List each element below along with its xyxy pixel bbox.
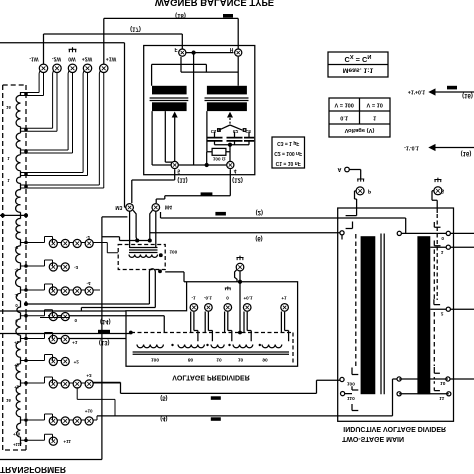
svg-text:(14): (14) — [100, 318, 111, 324]
svg-text:16: 16 — [6, 105, 11, 110]
svg-text:(2): (2) — [256, 209, 263, 215]
svg-text:(13): (13) — [99, 339, 110, 345]
svg-text:-2W: -2W — [52, 56, 61, 62]
svg-text:C3: C3 — [245, 129, 251, 134]
svg-text:110: 110 — [347, 395, 355, 401]
svg-text:+11: +11 — [63, 439, 71, 444]
svg-text:(11): (11) — [177, 176, 187, 182]
svg-text:0W: 0W — [68, 56, 76, 62]
svg-text:(17): (17) — [130, 25, 141, 31]
svg-text:+2: +2 — [74, 360, 80, 365]
svg-text:+1'+0.1: +1'+0.1 — [408, 89, 426, 95]
svg-text:Meas. 1:1: Meas. 1:1 — [343, 67, 374, 74]
svg-text:(6): (6) — [255, 235, 262, 241]
svg-text:100: 100 — [151, 356, 159, 362]
svg-text:5: 5 — [177, 167, 180, 173]
svg-text:TWO-STAGE MAIN: TWO-STAGE MAIN — [342, 435, 404, 442]
svg-text:(12): (12) — [232, 176, 243, 182]
svg-text:+1: +1 — [281, 296, 287, 301]
svg-text:(16): (16) — [461, 150, 472, 156]
svg-text:4: 4 — [234, 168, 237, 174]
svg-text:10: 10 — [216, 356, 222, 362]
svg-text:-0.1: -0.1 — [204, 296, 212, 301]
svg-text:C1 = 10 nF: C1 = 10 nF — [276, 160, 301, 166]
svg-text:100: 100 — [347, 381, 355, 387]
svg-text:-1W: -1W — [29, 56, 38, 62]
svg-text:V = 10: V = 10 — [367, 101, 383, 107]
svg-text:90: 90 — [262, 356, 268, 362]
svg-text:C2: C2 — [233, 129, 239, 134]
svg-text:-2: -2 — [86, 235, 91, 240]
svg-text:10: 10 — [440, 380, 446, 386]
svg-text:-4: -4 — [86, 281, 91, 286]
svg-text:+3: +3 — [86, 373, 92, 378]
svg-text:+2: +2 — [14, 384, 19, 389]
svg-text:C2 = 100 nF: C2 = 100 nF — [274, 150, 302, 156]
svg-text:(16): (16) — [462, 92, 473, 98]
svg-text:M3: M3 — [115, 204, 122, 210]
svg-text:(4): (4) — [160, 415, 167, 421]
svg-text:11: 11 — [439, 395, 444, 401]
svg-text:0: 0 — [226, 296, 229, 301]
svg-text:1: 1 — [441, 249, 444, 255]
svg-text:100: 100 — [169, 249, 177, 254]
svg-text:0: 0 — [75, 318, 78, 323]
svg-text:VOLTAGE PREDIVIDER: VOLTAGE PREDIVIDER — [172, 374, 250, 381]
svg-text:+2W: +2W — [82, 56, 93, 62]
svg-text:-4: -4 — [15, 292, 19, 297]
svg-text:100 Ω: 100 Ω — [213, 157, 226, 162]
svg-text:M4: M4 — [165, 204, 172, 210]
svg-text:+10: +10 — [85, 408, 93, 413]
svg-text:0.1: 0.1 — [340, 114, 348, 120]
svg-text:0: 0 — [441, 235, 444, 241]
svg-text:1: 1 — [373, 114, 376, 120]
svg-text:+10: +10 — [13, 431, 21, 436]
svg-text:-2: -2 — [15, 245, 19, 250]
svg-text:+0.1: +0.1 — [243, 296, 253, 301]
svg-text:80: 80 — [188, 356, 194, 362]
svg-text:F: F — [174, 46, 177, 52]
svg-text:2: 2 — [441, 310, 444, 316]
svg-text:-3: -3 — [15, 267, 19, 272]
svg-text:+2: +2 — [14, 362, 19, 367]
svg-text:10: 10 — [238, 356, 244, 362]
svg-text:H: H — [230, 46, 234, 52]
svg-text:+1: +1 — [72, 340, 78, 345]
svg-text:(18): (18) — [175, 12, 186, 18]
svg-text:A: A — [338, 166, 342, 172]
svg-text:INDUCTIVE VOLTAGE DIVIDER: INDUCTIVE VOLTAGE DIVIDER — [343, 425, 446, 432]
svg-text:V = 100: V = 100 — [334, 101, 353, 107]
svg-text:-3: -3 — [74, 265, 79, 270]
svg-text:Voltage (V): Voltage (V) — [345, 127, 375, 133]
svg-text:C1: C1 — [211, 129, 217, 134]
svg-text:TRANSFORMER: TRANSFORMER — [0, 465, 66, 474]
svg-text:-1: -1 — [191, 296, 196, 301]
svg-text:WAGNER BALANCE TYPE: WAGNER BALANCE TYPE — [155, 0, 274, 8]
svg-text:+11: +11 — [13, 442, 21, 447]
svg-text:+1W: +1W — [106, 56, 117, 62]
svg-text:(5): (5) — [160, 395, 167, 401]
svg-text:16: 16 — [6, 398, 11, 403]
svg-text:-1'-0.1: -1'-0.1 — [404, 145, 419, 151]
svg-text:+1: +1 — [14, 340, 19, 345]
svg-text:C3 = 1 µF: C3 = 1 µF — [277, 140, 299, 146]
